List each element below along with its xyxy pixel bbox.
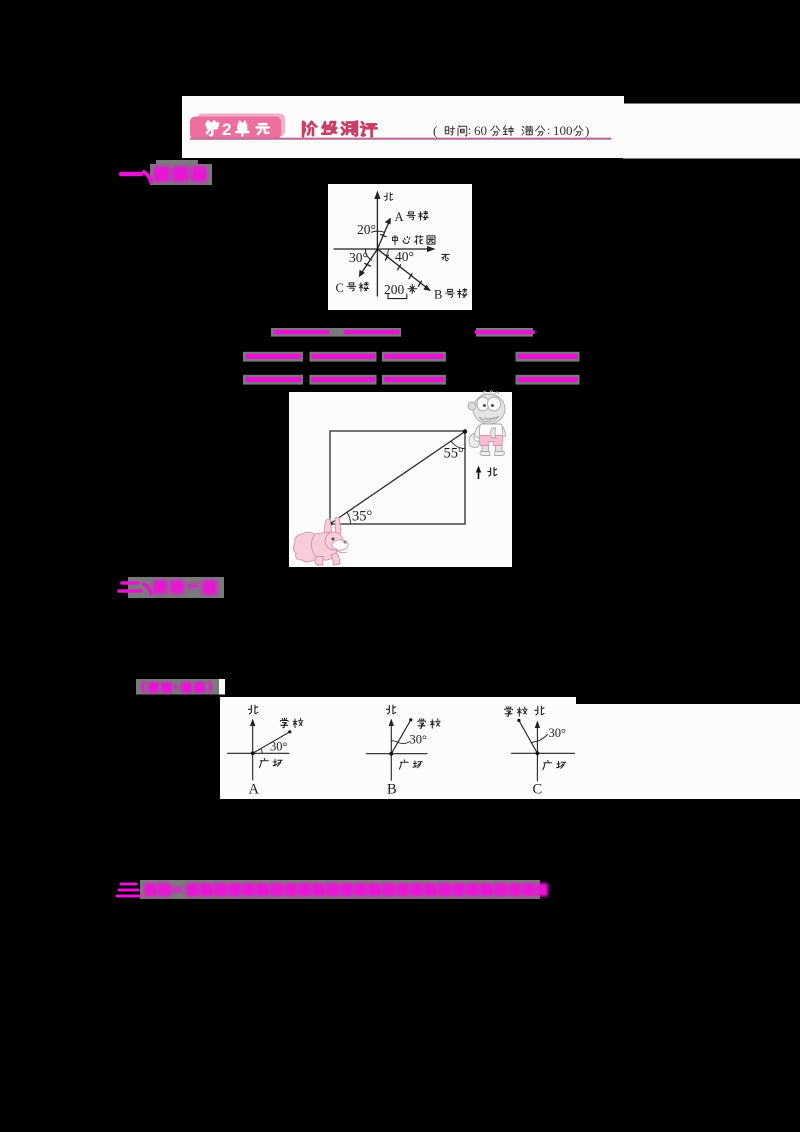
20 degree arc <box>372 231 385 232</box>
line to B <box>377 249 428 289</box>
header white panel (left part) <box>182 96 624 158</box>
white sliver right of citation <box>219 679 225 695</box>
option C: horizontal line <box>512 752 575 754</box>
monkey shorts <box>491 428 496 438</box>
rabbit cartoon <box>293 517 348 565</box>
label 北 (box2) <box>488 468 497 476</box>
option A: horizontal line <box>228 752 290 754</box>
svg-text:200: 200 <box>384 282 405 297</box>
monkey hair tufts <box>473 394 505 424</box>
label 中心花园 <box>393 235 435 244</box>
monkey left shoe <box>495 452 505 456</box>
option A: angle arc <box>261 749 262 754</box>
ticks on line B <box>385 255 388 260</box>
option B: plaza dot <box>389 752 393 756</box>
option B: label 学校 <box>418 719 440 729</box>
option C: label 北 <box>535 706 544 715</box>
monkey left leg <box>496 444 503 452</box>
section one highlight gray <box>150 164 212 185</box>
section two blurred text blobs <box>153 580 217 595</box>
rabbit ear R <box>293 532 324 562</box>
section two highlight gray <box>128 577 224 598</box>
svg-text:30°: 30° <box>270 740 288 754</box>
rabbit bushy tail <box>311 532 337 560</box>
tick on line A <box>381 235 386 237</box>
citation gray tag <box>136 679 219 695</box>
citation blurred magenta text <box>141 681 212 693</box>
answer-blank bars row 3 <box>243 375 580 385</box>
corner dot bottom-left <box>329 522 333 526</box>
option A: plaza dot <box>251 751 255 755</box>
monkey cartoon <box>468 391 506 456</box>
monkey right leg <box>480 452 490 456</box>
option A: line to school <box>253 732 290 754</box>
badge main pink <box>190 117 281 140</box>
svg-text:30°: 30° <box>410 733 428 747</box>
svg-text:35°: 35° <box>352 509 373 525</box>
svg-text:40°: 40° <box>395 249 414 264</box>
35 degree arc <box>347 512 351 523</box>
compass diagram white panel <box>328 184 472 310</box>
monkey right shoe <box>479 424 502 441</box>
section one 一、 magenta <box>121 172 151 182</box>
option A: label 北 <box>248 705 257 714</box>
option B: angle arc with leader <box>391 741 410 744</box>
svg-text:2: 2 <box>222 120 231 139</box>
rabbit ear L <box>335 517 341 535</box>
svg-text:B: B <box>434 288 442 302</box>
option A: label 学校 <box>280 718 302 728</box>
option C: label 广场 <box>543 760 566 769</box>
monkey left arm <box>499 425 506 438</box>
monkey head <box>468 402 476 410</box>
time / score line <box>445 126 583 136</box>
bottom blurred magenta text run <box>144 883 548 897</box>
rabbit eye <box>343 540 346 543</box>
option B: line to school <box>391 720 411 754</box>
option A: north axis <box>228 719 290 781</box>
55 degree arc <box>451 441 465 448</box>
answer-blank bars row 2 <box>243 352 580 362</box>
40 degree arc <box>386 249 388 256</box>
svg-text:B: B <box>387 782 397 798</box>
line A extended to C <box>360 249 377 275</box>
option B: north axis <box>366 719 427 781</box>
option C: angle arc with leader <box>531 735 547 743</box>
rabbit back leg <box>331 553 340 565</box>
svg-text:A: A <box>395 210 404 224</box>
badge text 第2单元 <box>206 121 269 135</box>
north axis arrowhead <box>374 191 380 200</box>
bottom question highlight gray <box>140 880 540 899</box>
monkey ear <box>477 397 489 411</box>
north axis <box>376 194 378 296</box>
svg-text:C: C <box>336 281 344 295</box>
rabbit body <box>315 556 324 565</box>
svg-text:A: A <box>249 782 260 798</box>
badge back light-pink <box>197 114 285 137</box>
corner dot top-right <box>463 429 467 433</box>
svg-text::: : <box>468 123 471 137</box>
svg-text:20°: 20° <box>357 222 376 237</box>
arrowhead A <box>385 218 391 225</box>
line to A <box>377 221 389 250</box>
section two 二、 magenta <box>119 583 151 594</box>
arrowhead C <box>359 270 365 278</box>
monkey tail <box>475 425 483 438</box>
svg-text:55°: 55° <box>444 446 465 462</box>
monkey eye patch L <box>488 397 501 411</box>
option C: north axis <box>512 720 575 780</box>
monkey right arm <box>482 444 489 452</box>
option A: label 广场 <box>259 758 282 767</box>
svg-text:C: C <box>533 782 543 798</box>
diagonal sight line <box>331 432 466 524</box>
30 degree arc <box>365 249 371 260</box>
svg-text:30°: 30° <box>549 726 567 740</box>
option B: label 北 <box>386 705 395 714</box>
rabbit muzzle <box>336 550 347 553</box>
scale bracket under 200米 <box>388 294 407 298</box>
option B: horizontal line <box>366 753 427 755</box>
label 北 (box1) <box>384 193 392 201</box>
svg-text:): ) <box>585 123 589 138</box>
monkey-rabbit diagram white panel <box>289 392 512 567</box>
option B: school dot <box>409 718 412 721</box>
option C: label 学校 <box>505 707 527 717</box>
east axis arrowhead <box>427 246 436 252</box>
answer-blank bars row 1 <box>271 328 535 337</box>
rabbit front leg <box>325 532 343 550</box>
east axis <box>334 248 431 250</box>
option C: plaza dot <box>536 751 540 755</box>
bottom 三、 magenta <box>117 884 140 896</box>
option C: school dot <box>517 719 520 722</box>
section one blurred text blobs <box>153 166 207 182</box>
options panel white (right extension) <box>576 704 800 799</box>
tick on line C <box>365 264 370 267</box>
monkey shirt <box>479 436 503 446</box>
svg-text:100: 100 <box>553 123 573 138</box>
svg-text:30°: 30° <box>349 250 368 265</box>
monkey hand at chest <box>484 391 499 394</box>
rabbit head <box>332 540 348 550</box>
header white panel (right extension) <box>623 104 800 159</box>
option B: label 广场 <box>399 760 422 769</box>
north arrow <box>478 470 480 479</box>
arrowhead B <box>423 285 431 291</box>
label 东 <box>442 254 449 260</box>
option C: line to school <box>519 720 538 753</box>
options panel white (left) <box>220 697 576 799</box>
svg-text:60: 60 <box>474 123 487 138</box>
monkey eye patch R <box>479 416 499 422</box>
pink underline <box>190 138 611 140</box>
svg-text::: : <box>547 123 550 137</box>
rectangle field <box>330 431 465 524</box>
svg-text:(: ( <box>433 123 437 138</box>
title 阶段测评 <box>303 121 377 136</box>
option A: school dot <box>288 730 291 733</box>
